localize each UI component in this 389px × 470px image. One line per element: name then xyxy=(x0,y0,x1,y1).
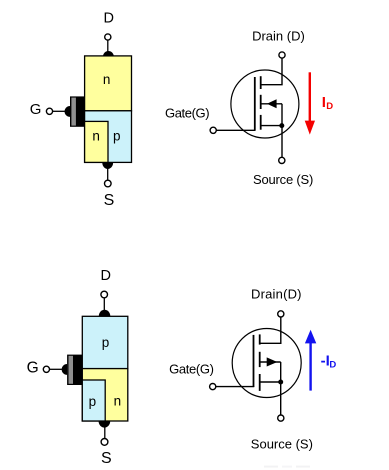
gate contact bump xyxy=(62,364,67,375)
channel dash (body) xyxy=(259,352,261,367)
svg-text:G: G xyxy=(27,359,39,376)
terminal D (bottom-left) xyxy=(101,291,108,298)
p region (body, cyan) xyxy=(85,111,132,163)
channel dash (drain) xyxy=(260,76,262,89)
source wire horizontal xyxy=(261,381,281,383)
body arrow (points left) xyxy=(267,99,277,108)
op circle U2 (symbol envelope) xyxy=(232,329,301,398)
svg-text:D: D xyxy=(101,268,111,284)
p region (source, small cyan) xyxy=(82,380,105,421)
current arrow -ID (blue, upward) xyxy=(309,342,311,391)
gate electrode (black) xyxy=(70,96,85,126)
current arrow ID (red, downward) xyxy=(309,72,311,122)
terminal drain (top symbol) xyxy=(279,52,285,58)
wire D to body xyxy=(107,40,109,52)
wire body-to-source vertical xyxy=(281,104,283,126)
channel dash (body) xyxy=(260,95,262,109)
svg-text:Drain (D): Drain (D) xyxy=(252,29,305,44)
terminal source (bottom symbol) xyxy=(278,415,284,421)
terminal source (top symbol) xyxy=(279,157,285,163)
wire gate lead xyxy=(216,129,255,131)
body wire with arrow xyxy=(261,361,281,363)
drain contact bump xyxy=(99,310,111,316)
svg-text:p: p xyxy=(102,335,110,350)
source contact bump xyxy=(99,421,111,427)
svg-text:Gate(G): Gate(G) xyxy=(165,105,209,120)
svg-text:Drain(D): Drain(D) xyxy=(251,286,302,301)
wire S xyxy=(104,427,106,439)
terminal G (top-left) xyxy=(46,108,52,114)
drain contact bump xyxy=(103,51,114,56)
svg-text:Gate(G): Gate(G) xyxy=(169,362,214,377)
source wire horizontal xyxy=(262,125,283,127)
terminal D (top-left) xyxy=(105,34,111,40)
wire body-to-source vertical xyxy=(280,362,282,382)
body arrow (points right) xyxy=(267,357,278,366)
faint cropped text hint at bottom xyxy=(264,466,278,468)
p region (drain, cyan) xyxy=(82,316,128,368)
n region (body, yellow) xyxy=(82,369,128,421)
channel dash (drain) xyxy=(259,334,261,344)
terminal G (bottom-left) xyxy=(43,366,49,372)
svg-text:n: n xyxy=(114,394,122,409)
channel dash (source) xyxy=(260,115,262,130)
channel dash (source) xyxy=(259,374,261,391)
gate bar xyxy=(253,335,255,387)
svg-text:D: D xyxy=(326,101,333,112)
wire drain lead xyxy=(260,317,281,343)
source contact bump xyxy=(102,163,113,169)
terminal S (top-left) xyxy=(105,180,112,187)
svg-text:D: D xyxy=(104,11,114,27)
svg-text:S: S xyxy=(101,450,112,467)
svg-text:n: n xyxy=(103,72,111,87)
wire D to body xyxy=(103,298,105,311)
svg-text:-I: -I xyxy=(321,352,330,369)
wire gate lead xyxy=(216,386,254,388)
op circle U1 (symbol envelope) xyxy=(231,70,299,138)
junction dot xyxy=(279,123,284,128)
svg-text:p: p xyxy=(89,394,97,409)
n region (source, small yellow) xyxy=(85,121,108,162)
svg-text:p: p xyxy=(113,129,121,144)
n region (drain, yellow) xyxy=(85,56,132,111)
wire source lead xyxy=(281,126,283,158)
terminal gate (top symbol) xyxy=(210,127,216,133)
svg-text:S: S xyxy=(104,192,115,209)
wire G xyxy=(53,110,66,112)
svg-text:G: G xyxy=(30,101,42,118)
terminal S (bottom-left) xyxy=(101,439,108,446)
terminal drain (bottom symbol) xyxy=(278,311,284,317)
terminal gate (bottom symbol) xyxy=(210,384,216,390)
gate oxide (gray bar) xyxy=(71,98,76,126)
wire source lead xyxy=(280,382,282,415)
svg-text:n: n xyxy=(92,128,100,143)
svg-text:Source (S): Source (S) xyxy=(253,172,313,187)
wire drain lead xyxy=(261,58,282,84)
gate contact bump xyxy=(65,106,70,117)
wire S xyxy=(107,168,109,181)
gate bar xyxy=(254,77,256,130)
svg-text:Source (S): Source (S) xyxy=(251,437,313,452)
wire G xyxy=(50,368,63,370)
svg-text:D: D xyxy=(329,359,336,370)
gate oxide (gray bar) xyxy=(69,356,74,384)
body wire with arrow xyxy=(262,103,283,105)
junction dot xyxy=(278,380,283,385)
gate electrode (black) xyxy=(67,355,82,385)
